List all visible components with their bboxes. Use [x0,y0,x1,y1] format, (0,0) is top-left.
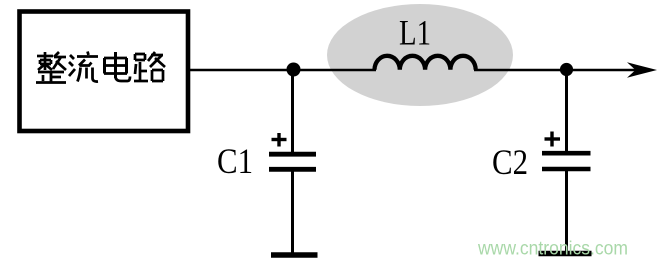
svg-text:C2: C2 [492,142,528,182]
svg-text:L1: L1 [399,13,431,53]
svg-text:www.cntronics.com: www.cntronics.com [477,239,628,260]
svg-text:C1: C1 [217,141,253,181]
